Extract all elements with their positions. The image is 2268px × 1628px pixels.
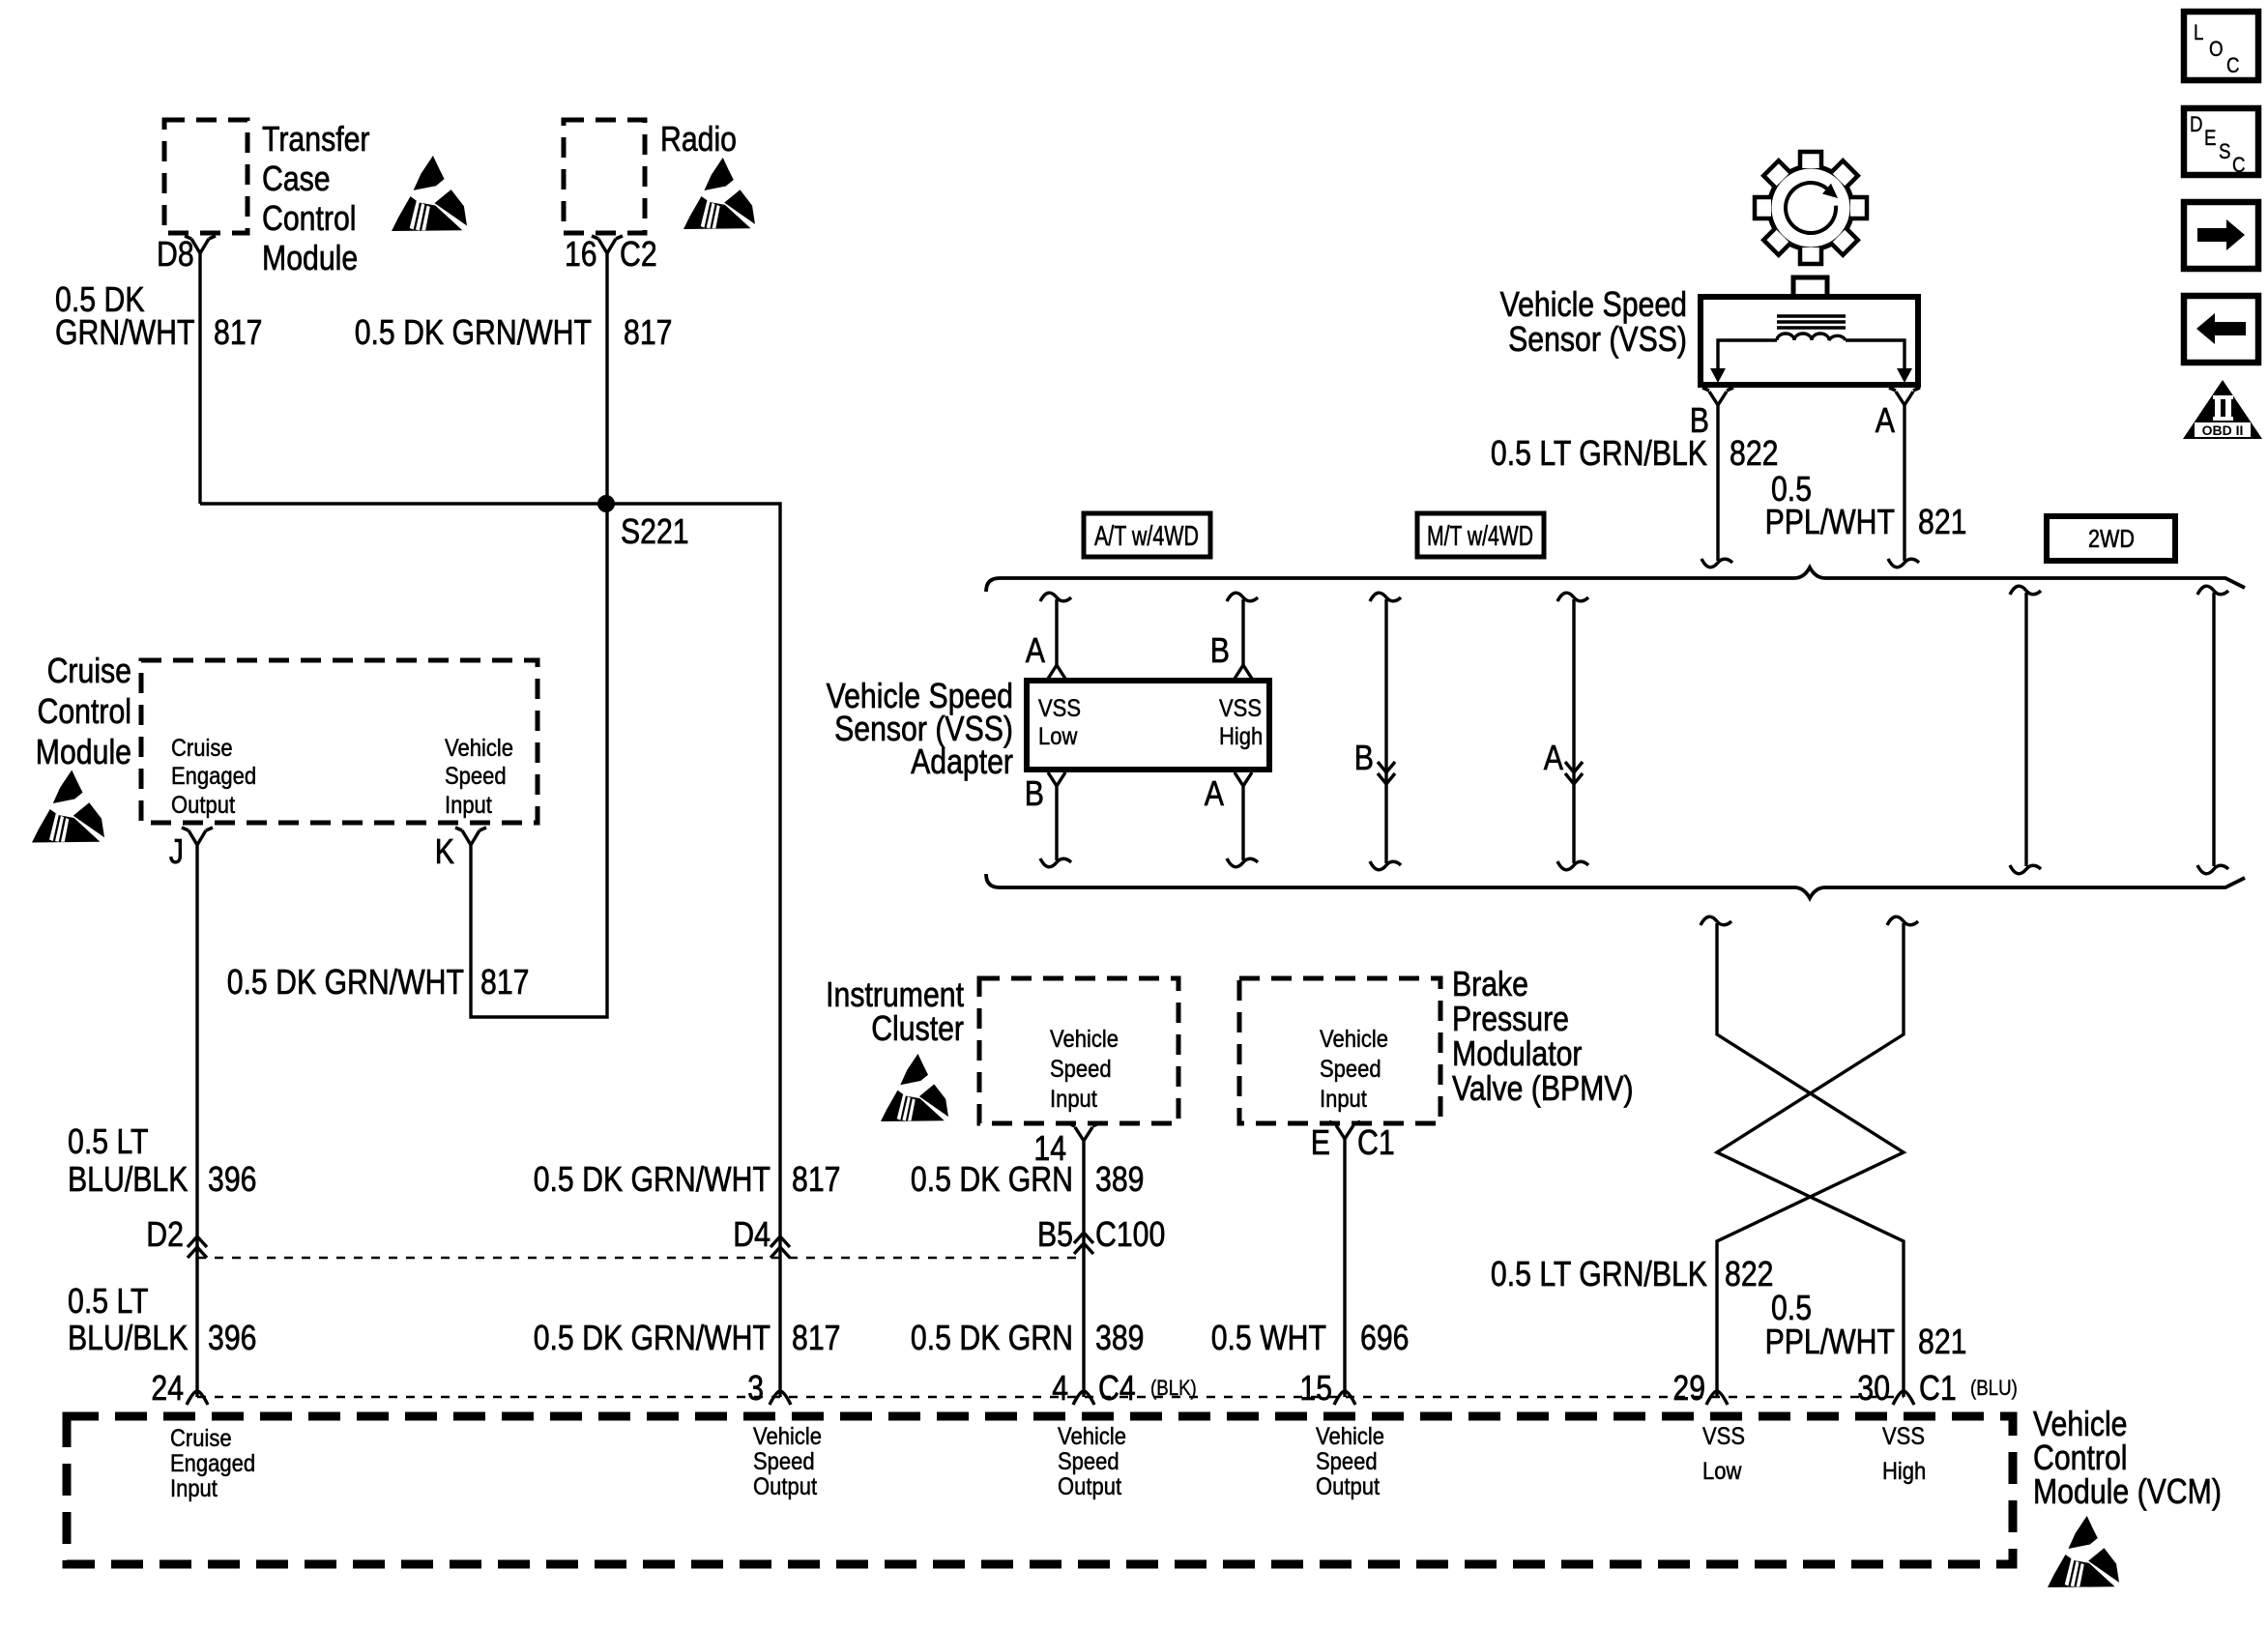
svg-text:Input: Input (170, 1475, 218, 1502)
svg-text:Engaged: Engaged (171, 763, 256, 790)
svg-text:E: E (1311, 1122, 1330, 1162)
svg-text:C2: C2 (620, 234, 657, 274)
svg-text:817: 817 (624, 312, 673, 352)
svg-text:0.5 DK GRN/WHT: 0.5 DK GRN/WHT (227, 962, 464, 1002)
svg-text:389: 389 (1095, 1159, 1145, 1199)
svg-text:C: C (2232, 153, 2246, 177)
svg-text:A: A (1544, 738, 1563, 777)
svg-text:B5: B5 (1037, 1214, 1073, 1254)
svg-text:OBD II: OBD II (2202, 422, 2244, 438)
svg-text:Speed: Speed (445, 763, 507, 790)
svg-text:Brake: Brake (1452, 964, 1528, 1003)
svg-text:High: High (1882, 1458, 1926, 1485)
svg-text:Input: Input (1320, 1086, 1367, 1113)
svg-text:A: A (1875, 400, 1895, 440)
svg-text:Adapter: Adapter (911, 741, 1013, 781)
svg-text:A: A (1026, 630, 1045, 670)
svg-text:Vehicle: Vehicle (1050, 1026, 1119, 1053)
svg-text:Modulator: Modulator (1452, 1033, 1583, 1073)
svg-text:817: 817 (792, 1318, 841, 1357)
svg-text:Output: Output (753, 1473, 817, 1500)
svg-text:K: K (435, 831, 454, 871)
svg-text:4: 4 (1052, 1368, 1068, 1408)
svg-text:PPL/WHT: PPL/WHT (1765, 502, 1895, 541)
svg-text:B: B (1354, 738, 1374, 777)
svg-text:High: High (1219, 723, 1263, 750)
svg-text:B: B (1210, 630, 1230, 670)
svg-text:Control: Control (38, 691, 132, 731)
svg-text:389: 389 (1095, 1318, 1145, 1357)
svg-text:Radio: Radio (660, 119, 737, 159)
svg-text:0.5 DK GRN/WHT: 0.5 DK GRN/WHT (534, 1159, 771, 1199)
svg-text:Speed: Speed (1320, 1056, 1381, 1083)
svg-text:821: 821 (1918, 1322, 1967, 1361)
svg-text:E: E (2204, 126, 2217, 150)
svg-text:Vehicle: Vehicle (1058, 1423, 1126, 1450)
svg-text:(BLU): (BLU) (1970, 1376, 2018, 1400)
svg-text:14: 14 (1033, 1128, 1066, 1168)
svg-text:A: A (1205, 773, 1224, 813)
svg-text:Vehicle: Vehicle (1320, 1026, 1388, 1053)
svg-text:Input: Input (445, 792, 492, 819)
svg-text:Low: Low (1702, 1458, 1742, 1485)
svg-text:D8: D8 (157, 234, 194, 274)
svg-text:A/T w/4WD: A/T w/4WD (1094, 521, 1199, 552)
svg-text:(BLK): (BLK) (1150, 1376, 1197, 1400)
svg-text:J: J (169, 831, 184, 871)
svg-text:Vehicle Speed: Vehicle Speed (1500, 284, 1687, 324)
svg-text:Cruise: Cruise (47, 651, 131, 690)
svg-text:BLU/BLK: BLU/BLK (68, 1318, 188, 1357)
svg-text:Vehicle: Vehicle (753, 1423, 822, 1450)
svg-text:822: 822 (1725, 1254, 1774, 1294)
svg-text:Sensor (VSS): Sensor (VSS) (1508, 319, 1687, 359)
svg-text:0.5 DK GRN: 0.5 DK GRN (911, 1318, 1073, 1357)
svg-text:3: 3 (747, 1368, 764, 1408)
svg-text:0.5 DK GRN/WHT: 0.5 DK GRN/WHT (534, 1318, 771, 1357)
svg-text:24: 24 (151, 1368, 184, 1408)
svg-text:817: 817 (792, 1159, 841, 1199)
svg-text:821: 821 (1918, 502, 1967, 541)
svg-text:BLU/BLK: BLU/BLK (68, 1159, 188, 1199)
svg-text:0.5 WHT: 0.5 WHT (1211, 1318, 1326, 1357)
svg-text:C1: C1 (1919, 1368, 1957, 1408)
svg-text:822: 822 (1730, 433, 1779, 473)
svg-text:0.5 LT: 0.5 LT (68, 1281, 149, 1321)
svg-text:C4: C4 (1098, 1368, 1136, 1408)
svg-text:Module (VCM): Module (VCM) (2033, 1471, 2222, 1511)
svg-text:Input: Input (1050, 1086, 1097, 1113)
svg-text:696: 696 (1360, 1318, 1410, 1357)
svg-text:VSS: VSS (1219, 695, 1262, 722)
svg-text:Output: Output (1058, 1473, 1121, 1500)
svg-text:0.5 LT GRN/BLK: 0.5 LT GRN/BLK (1491, 1254, 1707, 1294)
svg-text:Speed: Speed (1058, 1448, 1119, 1475)
svg-text:Engaged: Engaged (170, 1450, 255, 1477)
svg-text:Cruise: Cruise (171, 735, 233, 762)
svg-text:Transfer: Transfer (262, 119, 370, 159)
svg-text:Pressure: Pressure (1452, 999, 1569, 1038)
svg-text:Case: Case (262, 159, 331, 198)
svg-text:817: 817 (214, 312, 263, 352)
svg-text:Module: Module (36, 732, 131, 771)
svg-text:B: B (1025, 773, 1044, 813)
svg-text:C1: C1 (1357, 1122, 1395, 1162)
svg-text:Vehicle: Vehicle (445, 735, 513, 762)
svg-text:15: 15 (1299, 1368, 1332, 1408)
svg-text:C: C (2226, 53, 2240, 77)
svg-text:0.5 DK GRN/WHT: 0.5 DK GRN/WHT (355, 312, 592, 352)
svg-text:817: 817 (480, 962, 530, 1002)
svg-text:D4: D4 (733, 1214, 771, 1254)
svg-text:0.5 LT GRN/BLK: 0.5 LT GRN/BLK (1491, 433, 1707, 473)
svg-text:S221: S221 (621, 511, 689, 551)
svg-text:VSS: VSS (1038, 695, 1081, 722)
svg-text:PPL/WHT: PPL/WHT (1765, 1322, 1895, 1361)
svg-text:Vehicle: Vehicle (1316, 1423, 1384, 1450)
svg-text:VSS: VSS (1882, 1423, 1925, 1450)
svg-text:D2: D2 (146, 1214, 184, 1254)
svg-text:29: 29 (1672, 1368, 1705, 1408)
svg-text:Output: Output (171, 792, 235, 819)
svg-text:L: L (2194, 20, 2203, 44)
svg-text:Cluster: Cluster (871, 1008, 964, 1048)
svg-text:Speed: Speed (753, 1448, 815, 1475)
svg-text:Speed: Speed (1050, 1056, 1112, 1083)
svg-text:2WD: 2WD (2088, 524, 2135, 553)
svg-text:16: 16 (565, 234, 597, 274)
svg-text:M/T w/4WD: M/T w/4WD (1427, 521, 1533, 552)
svg-text:Output: Output (1316, 1473, 1380, 1500)
svg-text:Low: Low (1038, 723, 1078, 750)
svg-text:Valve (BPMV): Valve (BPMV) (1452, 1068, 1634, 1108)
svg-text:396: 396 (208, 1159, 257, 1199)
svg-text:GRN/WHT: GRN/WHT (55, 312, 195, 352)
svg-text:Cruise: Cruise (170, 1425, 232, 1452)
svg-text:D: D (2190, 112, 2203, 136)
svg-text:C100: C100 (1095, 1214, 1165, 1254)
svg-text:396: 396 (208, 1318, 257, 1357)
svg-text:S: S (2219, 139, 2231, 163)
svg-text:VSS: VSS (1702, 1423, 1745, 1450)
svg-text:O: O (2209, 37, 2224, 61)
svg-text:0.5 LT: 0.5 LT (68, 1121, 149, 1161)
svg-text:Module: Module (262, 238, 358, 277)
svg-text:30: 30 (1857, 1368, 1890, 1408)
svg-text:Speed: Speed (1316, 1448, 1378, 1475)
svg-text:Control: Control (262, 198, 357, 238)
